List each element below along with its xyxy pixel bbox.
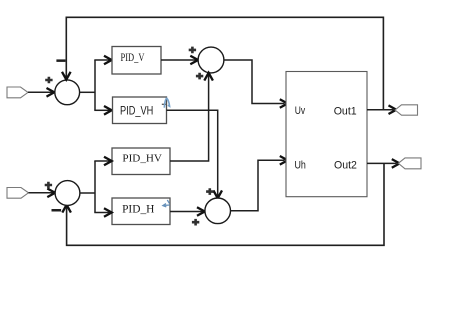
svg-text:Out2: Out2: [334, 159, 357, 171]
minus sign at S1L feedback input: [56, 59, 65, 62]
subsystem block U1: [286, 72, 367, 197]
plus sign at S1R left input: [189, 47, 196, 54]
svg-text:Out1: Out1: [334, 106, 357, 118]
wire PID_V to sum S1R: [161, 56, 198, 65]
svg-text:PID_H: PID_H: [122, 204, 154, 216]
minus sign at S2L feedback input: [52, 209, 62, 212]
wire PID_H to sum S2R: [170, 207, 205, 216]
summing junction S1L: [55, 80, 80, 105]
svg-text:PID_V: PID_V: [121, 52, 146, 64]
wire In2 to sum S2L: [29, 189, 56, 198]
output port Out1: [395, 105, 418, 115]
svg-text:Uh: Uh: [295, 159, 306, 171]
wire top feedback from Out1 to S1L: [62, 17, 383, 109]
plus sign at S1R bottom input: [196, 73, 203, 80]
plus sign at S2R left input: [192, 219, 199, 226]
blue annotation arc on PID_VH: [162, 98, 170, 108]
input port In2: [7, 188, 29, 199]
wire In1 to sum S1L: [28, 88, 54, 97]
plus sign at S1L input: [45, 77, 52, 84]
block PID_V: [112, 47, 161, 75]
wire S2L output tee to PID_HV and PID_H: [80, 157, 112, 217]
svg-text:PID_HV: PID_HV: [122, 152, 162, 164]
plus sign at S2L input: [45, 182, 52, 189]
wire Out1 to output port: [367, 105, 396, 114]
plus sign at S2R top input: [206, 188, 213, 195]
summing junction S2L: [55, 181, 80, 206]
svg-text:Uv: Uv: [295, 105, 306, 117]
wire S1L output tee to PID_V and PID_VH: [80, 56, 112, 115]
wire bottom feedback from Out2 to S2L: [62, 163, 384, 245]
block PID_HV: [112, 148, 170, 175]
output port Out2: [398, 158, 421, 169]
input port In1: [7, 87, 28, 98]
block PID_H: [112, 198, 170, 225]
block PID_VH: [113, 97, 167, 124]
wire S2R to subsystem input Uh: [231, 156, 288, 211]
wire PID_VH to sum S2R: [167, 110, 223, 198]
summing junction S2R: [205, 198, 231, 224]
summing junction S1R: [198, 47, 224, 73]
wire S1R to subsystem input Uv: [224, 60, 288, 108]
svg-text:PID_VH: PID_VH: [120, 103, 153, 117]
blue annotation arrow on PID_H: [163, 200, 170, 207]
wire PID_HV to sum S1R: [170, 73, 213, 161]
wire Out2 to output port: [367, 159, 400, 168]
